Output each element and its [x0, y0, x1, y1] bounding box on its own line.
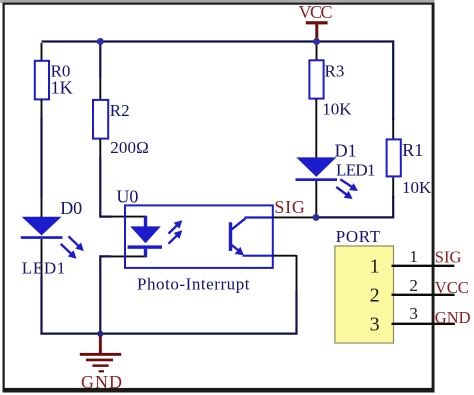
svg-text:LED1: LED1: [22, 259, 66, 278]
svg-text:GND: GND: [81, 372, 122, 392]
svg-text:200Ω: 200Ω: [110, 138, 149, 157]
wire top rail VCC net: [42, 40, 394, 42]
pin U0 collector to SIG junction: [273, 216, 315, 218]
pin 3 line: [392, 304, 455, 324]
svg-text:1K: 1K: [51, 78, 73, 98]
pin 2 line: [392, 276, 455, 295]
opto U0 pin stubs (left): [111, 216, 146, 218]
port PORT yellow body: [335, 246, 394, 343]
svg-text:PORT: PORT: [336, 227, 381, 246]
ground GND: [80, 334, 122, 392]
svg-text:2: 2: [370, 285, 380, 307]
wire U0 cathode pin to GND junction: [100, 256, 111, 333]
resistor R2: [93, 78, 149, 158]
U0 internal phototransistor: [229, 218, 273, 256]
wire R2 to U0 anode pin: [100, 158, 112, 217]
U0 internal LED: [128, 216, 183, 257]
svg-text:VCC: VCC: [435, 278, 469, 297]
pin 1 line: [392, 247, 455, 266]
junction SIG net: [313, 214, 320, 221]
svg-text:1: 1: [370, 256, 380, 278]
svg-text:VCC: VCC: [299, 2, 333, 22]
sheet frame (decorative): [0, 0, 435, 3]
svg-text:3: 3: [370, 314, 380, 336]
junction VCC rail / R3: [313, 38, 320, 45]
svg-text:SIG: SIG: [435, 247, 462, 266]
svg-text:1: 1: [409, 247, 418, 266]
svg-text:SIG: SIG: [274, 197, 305, 217]
svg-text:U0: U0: [116, 186, 138, 206]
junction VCC rail / R2: [97, 38, 104, 45]
svg-text:GND: GND: [435, 308, 471, 327]
junction GND net: [97, 331, 103, 337]
port PORT header: [336, 227, 381, 336]
svg-text:R2: R2: [110, 101, 130, 120]
LED D1: [296, 140, 376, 214]
svg-text:R3: R3: [325, 61, 345, 80]
svg-text:10K: 10K: [402, 178, 432, 197]
wire stub VCC junction to R2: [99, 42, 101, 79]
svg-text:10K: 10K: [322, 100, 352, 119]
svg-text:D0: D0: [60, 198, 82, 218]
resistor R1: [387, 119, 432, 197]
power VCC symbol: [299, 2, 333, 40]
resistor R0: [35, 43, 73, 118]
svg-text:2: 2: [409, 276, 418, 295]
svg-text:Photo-Interrupt: Photo-Interrupt: [137, 274, 250, 293]
svg-text:LED1: LED1: [336, 161, 376, 180]
wire right drop to R1: [392, 40, 394, 120]
pin U0 emitter: [273, 255, 297, 290]
resistor R3: [309, 44, 352, 158]
LED D0: [21, 198, 84, 278]
svg-text:3: 3: [409, 304, 418, 323]
wire SIG net: [316, 196, 393, 217]
wire R0 to D0: [40, 117, 42, 199]
op-amp U0 photo-interrupter box: [116, 186, 272, 293]
wire D0 to bottom rail and GND rail to emitter drop: [42, 276, 297, 334]
svg-text:R1: R1: [402, 140, 423, 160]
svg-text:D1: D1: [335, 140, 357, 160]
